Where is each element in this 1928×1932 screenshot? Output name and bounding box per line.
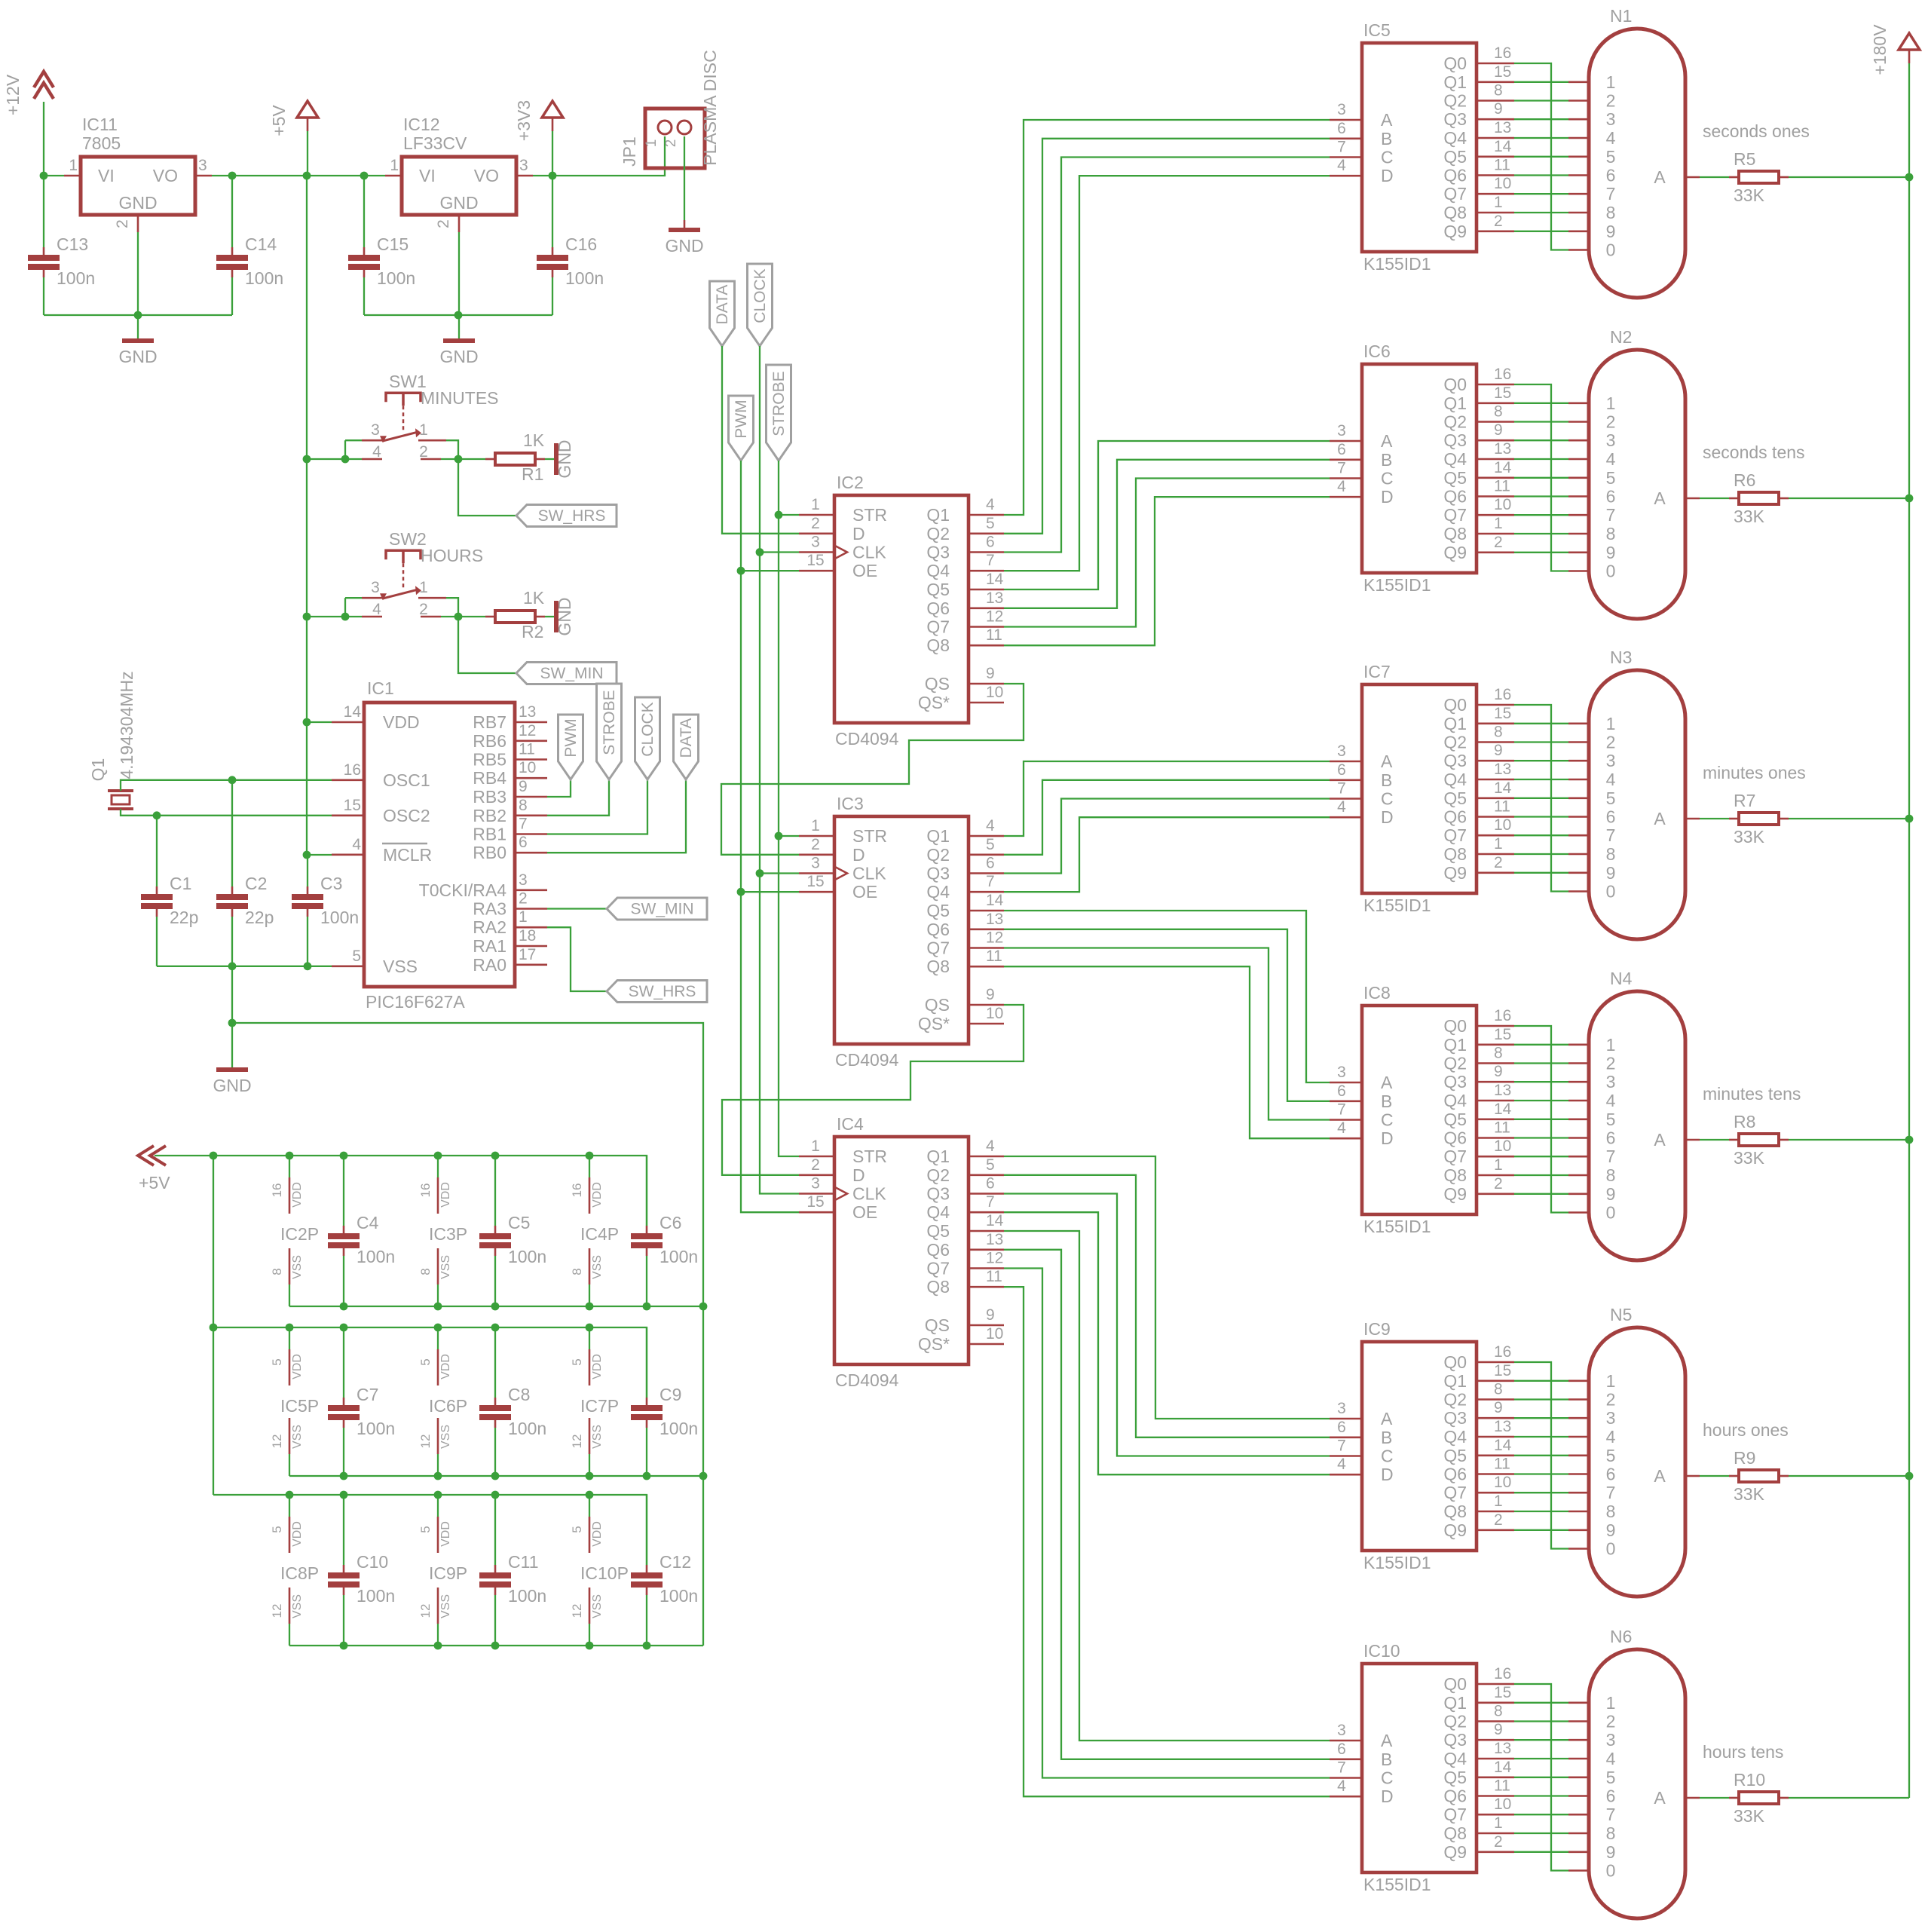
svg-text:14: 14 [1494,1759,1512,1776]
svg-text:C16: C16 [565,234,597,254]
svg-text:11: 11 [986,1268,1002,1285]
wire SW2 to R2 [441,616,485,617]
wire IC4 Q4 to IC9 D [1004,1212,1330,1474]
wire IC7 Q1 to N3 pin 1 [1514,723,1568,724]
wire R10 to +180V rail [1789,1797,1909,1799]
svg-text:CLOCK: CLOCK [639,702,656,756]
svg-text:A: A [1381,1731,1393,1750]
svg-text:VI: VI [419,166,436,185]
svg-text:C: C [1381,789,1394,809]
svg-text:9: 9 [1606,1184,1616,1204]
svg-text:D: D [1381,1787,1394,1806]
wire SW2 throw bracket [446,598,458,617]
svg-text:6: 6 [1337,441,1346,458]
svg-text:A: A [1381,431,1393,451]
svg-text:2: 2 [1494,213,1503,230]
svg-text:C8: C8 [508,1385,530,1404]
net flag SW_MIN [607,898,707,920]
svg-text:STROBE: STROBE [601,690,618,755]
svg-text:5: 5 [270,1526,284,1532]
svg-text:Q1: Q1 [1443,393,1467,413]
svg-text:8: 8 [418,1268,433,1275]
wire C13 bottom [43,277,44,315]
wire R5 to +180V rail [1789,176,1909,178]
svg-text:K155ID1: K155ID1 [1363,1217,1431,1236]
power pins IC7P [570,1349,619,1454]
net flag DATA [710,281,735,346]
svg-text:VDD: VDD [291,1182,304,1208]
svg-text:1: 1 [1606,1371,1616,1391]
svg-text:RB1: RB1 [473,825,506,844]
svg-text:VSS: VSS [291,1255,304,1279]
capacitor C16 [537,234,604,288]
svg-text:HOURS: HOURS [421,546,483,565]
wire C6 bottom [646,1256,647,1306]
ground GND1 [118,341,157,366]
svg-text:1K: 1K [523,588,545,608]
wire IC7P vss [589,1454,590,1476]
wire RA3 to SW_MIN [547,908,607,909]
svg-text:Q5: Q5 [1443,1446,1467,1465]
supply +5V [269,101,318,136]
resistor R10 33K [1729,1792,1789,1804]
wire CLOCK bus [760,346,799,1194]
svg-text:1: 1 [1606,714,1616,733]
svg-text:D: D [852,524,865,543]
svg-text:2: 2 [419,601,428,618]
svg-text:C14: C14 [245,234,277,254]
svg-text:Q1: Q1 [1443,1371,1467,1391]
wire C15 bottom [363,277,365,315]
svg-text:4: 4 [1606,449,1616,469]
svg-text:A: A [1654,488,1666,508]
svg-text:R8: R8 [1734,1112,1755,1131]
svg-text:6: 6 [1606,1128,1616,1148]
svg-text:9: 9 [1606,1520,1616,1540]
svg-text:IC8: IC8 [1363,983,1391,1003]
svg-text:Q9: Q9 [1443,543,1467,562]
wire OSC2 [121,809,332,816]
svg-text:Q7: Q7 [926,938,950,958]
svg-text:12: 12 [270,1604,284,1618]
svg-text:Q2: Q2 [926,524,950,543]
wire N3 anode [1700,818,1729,819]
wire IC3 Q1 to IC7 A [1004,761,1330,836]
wire IC8 Q0 to N4 pin 0 [1514,1026,1568,1213]
wire C5 bottom [494,1256,496,1306]
svg-text:VSS: VSS [439,1255,452,1279]
svg-text:9: 9 [986,986,995,1003]
wire IC10 Q6 to N6 pin 6 [1514,1795,1568,1796]
wire C15 top [363,176,365,247]
svg-text:VDD: VDD [591,1354,604,1379]
net flag SW_HRS [607,981,707,1003]
svg-text:CD4094: CD4094 [835,729,899,749]
svg-text:CLK: CLK [852,1184,886,1204]
power pins IC2P [270,1177,319,1284]
svg-text:Q0: Q0 [1443,1352,1467,1372]
wire IC6 Q0 to N2 pin 0 [1514,384,1568,571]
wire +12V rail [44,175,64,176]
svg-text:minutes ones: minutes ones [1703,763,1806,782]
wire C7 top [343,1327,344,1398]
svg-text:5: 5 [352,948,361,965]
svg-text:Q3: Q3 [1443,751,1467,770]
supply +12V [3,72,54,115]
svg-text:3: 3 [1337,1722,1346,1739]
svg-text:2: 2 [114,219,131,228]
wire C1 top [156,816,158,886]
svg-text:Q8: Q8 [926,957,950,976]
svg-text:+5V: +5V [269,105,289,136]
svg-text:13: 13 [519,703,536,721]
svg-text:VDD: VDD [439,1354,452,1379]
svg-text:Q1: Q1 [1443,714,1467,733]
supply +180V [1870,24,1920,75]
svg-text:2: 2 [1606,733,1616,752]
svg-text:6: 6 [1606,1465,1616,1484]
svg-text:3: 3 [519,871,528,889]
wire IC10P vss [589,1624,590,1646]
svg-text:Q6: Q6 [926,1240,950,1260]
svg-text:1: 1 [1494,515,1503,532]
svg-text:Q9: Q9 [1443,1184,1467,1204]
wire to ground [231,1023,233,1068]
svg-text:+12V: +12V [3,74,23,115]
svg-text:Q8: Q8 [1443,1502,1467,1521]
svg-text:17: 17 [519,946,536,963]
svg-text:15: 15 [1494,1362,1511,1379]
svg-text:hours tens: hours tens [1703,1742,1783,1762]
svg-text:C7: C7 [357,1385,378,1404]
svg-text:4: 4 [1606,1749,1616,1768]
wire IC8 Q1 to N4 pin 1 [1514,1044,1568,1046]
svg-text:VI: VI [98,166,115,185]
svg-text:3: 3 [1606,1408,1616,1428]
svg-text:Q8: Q8 [1443,524,1467,543]
svg-text:4: 4 [372,443,381,461]
capacitor C11 [479,1552,546,1606]
svg-text:8: 8 [1494,1703,1503,1720]
svg-text:7: 7 [519,816,528,833]
wire C10 bottom [343,1595,344,1646]
svg-text:VSS: VSS [439,1594,452,1618]
svg-text:Q6: Q6 [1443,1787,1467,1806]
svg-text:Q7: Q7 [1443,825,1467,845]
wire IC5P vdd [289,1327,290,1349]
svg-text:6: 6 [1337,1419,1346,1436]
svg-text:C2: C2 [245,874,267,893]
svg-text:minutes tens: minutes tens [1703,1084,1801,1104]
svg-text:Q7: Q7 [1443,184,1467,204]
svg-text:seconds ones: seconds ones [1703,121,1810,141]
wire cascade IC2 QS to IC3 D [721,684,1024,855]
svg-text:16: 16 [418,1183,433,1198]
svg-text:Q9: Q9 [1443,222,1467,241]
svg-text:4: 4 [1606,770,1616,789]
wire +5V rail row2 [213,1327,647,1398]
svg-text:8: 8 [1494,1381,1503,1398]
svg-text:13: 13 [986,589,1003,607]
svg-text:16: 16 [1494,1007,1511,1024]
svg-text:14: 14 [344,703,362,721]
svg-text:2: 2 [811,1156,820,1174]
wire R2 to ground [545,616,555,617]
wire C16 bottom [552,277,553,315]
svg-text:8: 8 [1494,1045,1503,1062]
svg-text:4: 4 [1337,1456,1346,1473]
svg-text:12: 12 [986,608,1003,626]
svg-text:4.194304MHz: 4.194304MHz [117,671,136,779]
svg-text:C9: C9 [659,1385,681,1404]
wire IC6 Q3 to N2 pin 3 [1514,439,1568,441]
svg-text:QS: QS [925,674,950,693]
svg-text:A: A [1654,1788,1666,1808]
svg-text:GND: GND [665,236,703,256]
wire IC5 Q5 to N1 pin 5 [1514,156,1568,158]
resistor R1 1K [485,453,545,465]
svg-text:IC10: IC10 [1363,1641,1400,1661]
svg-text:Q2: Q2 [1443,412,1467,432]
svg-text:9: 9 [1494,1063,1503,1080]
svg-text:Q3: Q3 [1443,1730,1467,1750]
svg-text:A: A [1381,752,1393,771]
capacitor C13 [28,234,95,288]
resistor R6 33K [1729,492,1789,504]
svg-text:1: 1 [419,579,428,596]
svg-text:6: 6 [1337,120,1346,137]
svg-text:C10: C10 [357,1552,388,1572]
svg-text:100n: 100n [508,1586,546,1606]
svg-text:2: 2 [1606,1712,1616,1731]
svg-text:14: 14 [1494,1101,1512,1118]
wire IC10 Q1 to N6 pin 1 [1514,1702,1568,1704]
svg-text:3: 3 [1606,109,1616,129]
wire +5V feeder [213,1156,214,1495]
svg-text:B: B [1381,1092,1392,1111]
svg-text:1: 1 [1494,194,1503,211]
svg-text:14: 14 [986,571,1004,588]
svg-text:10: 10 [1494,175,1511,192]
svg-text:1: 1 [1606,393,1616,413]
svg-text:IC12: IC12 [403,115,440,134]
svg-text:7: 7 [1337,1101,1346,1119]
wire VSS rail [157,966,332,967]
svg-text:RB2: RB2 [473,806,506,825]
svg-text:CLOCK: CLOCK [751,268,769,323]
svg-text:4: 4 [1337,1777,1346,1795]
wire cascade IC3 QS to IC4 D [722,1005,1024,1175]
svg-text:4: 4 [372,601,381,618]
ground GND4 [213,1070,251,1095]
svg-text:100n: 100n [357,1586,395,1606]
svg-text:33K: 33K [1734,1806,1765,1826]
svg-text:C15: C15 [377,234,409,254]
svg-text:+180V: +180V [1870,24,1890,75]
svg-text:8: 8 [1606,1165,1616,1185]
svg-text:5: 5 [1606,1446,1616,1465]
svg-text:3: 3 [519,157,528,174]
svg-text:5: 5 [986,515,995,532]
svg-text:Q4: Q4 [1443,449,1467,469]
svg-text:4: 4 [1606,1427,1616,1447]
svg-text:9: 9 [986,665,995,682]
capacitor C15 [348,234,415,288]
svg-text:Q7: Q7 [926,1259,950,1278]
wire IC2 Q4 to IC5 D [1004,176,1330,571]
svg-text:3: 3 [198,157,207,174]
svg-text:1K: 1K [523,430,545,450]
wire IC9 Q4 to N5 pin 4 [1514,1436,1568,1438]
svg-text:VSS: VSS [591,1594,604,1618]
svg-text:1: 1 [1494,1814,1503,1832]
svg-text:5: 5 [1606,147,1616,167]
svg-text:N3: N3 [1610,648,1632,667]
svg-text:33K: 33K [1734,1484,1765,1504]
supply +3V3 [514,100,563,141]
svg-text:3: 3 [1337,742,1346,760]
svg-text:R2: R2 [522,622,543,641]
svg-text:6: 6 [1606,166,1616,185]
wire IC3 Q6 to IC8 B [1004,929,1330,1101]
svg-text:9: 9 [986,1306,995,1324]
wire IC9P vss [437,1624,439,1646]
wire JP1 pin2 gnd [684,136,685,220]
svg-text:13: 13 [1494,1740,1511,1757]
svg-text:2: 2 [1606,91,1616,111]
svg-text:3: 3 [811,534,820,551]
svg-text:Q5: Q5 [1443,1768,1467,1787]
svg-text:7: 7 [1606,184,1616,204]
wire IC7 Q2 to N3 pin 2 [1514,741,1568,742]
svg-text:14: 14 [1494,779,1512,797]
svg-text:LF33CV: LF33CV [403,133,467,153]
svg-text:12: 12 [570,1434,584,1449]
wire +180V rail [1908,63,1910,1798]
svg-text:DATA: DATA [714,285,731,325]
svg-text:9: 9 [1494,1721,1503,1738]
svg-text:RA3: RA3 [473,899,506,919]
wire IC3 Q3 to IC7 C [1004,799,1330,874]
svg-text:C1: C1 [170,874,191,893]
wire IC2 Q8 to IC6 D [1004,497,1330,645]
svg-text:2: 2 [419,443,428,461]
wire C2 bottom [231,917,233,966]
wire C16 top [552,176,553,247]
capacitor C8 [479,1385,546,1438]
svg-text:9: 9 [1494,421,1503,439]
wire IC8 Q5 to N4 pin 5 [1514,1119,1568,1120]
svg-text:5: 5 [570,1526,584,1532]
wire IC7 Q4 to N3 pin 4 [1514,779,1568,780]
wire IC9 Q5 to N5 pin 5 [1514,1455,1568,1456]
capacitor C14 [216,234,283,288]
svg-text:Q2: Q2 [1443,1054,1467,1073]
BCD decoder IC5 K155ID1 [1330,20,1514,274]
svg-text:8: 8 [570,1268,584,1275]
svg-text:IC5: IC5 [1363,20,1391,40]
svg-text:11: 11 [1494,1456,1510,1473]
wire SW1 to SW_HRS flag [458,459,516,516]
voltage regulator IC11 7805 [64,115,212,232]
svg-text:4: 4 [1337,478,1346,495]
wire IC6 Q5 to N2 pin 5 [1514,477,1568,479]
svg-text:C13: C13 [57,234,88,254]
svg-text:Q5: Q5 [926,1221,950,1241]
svg-text:GND: GND [118,193,157,213]
wire R7 to +180V rail [1789,818,1909,819]
svg-text:IC7: IC7 [1363,662,1391,681]
wire IC4P vdd [589,1156,590,1177]
svg-text:seconds tens: seconds tens [1703,442,1805,462]
svg-text:0: 0 [1606,240,1616,260]
svg-text:5: 5 [1606,1768,1616,1787]
svg-text:3: 3 [371,421,380,439]
wire +5V bus to MCLR [307,176,332,855]
wire IC11 pin2 gnd [137,232,139,315]
svg-text:D: D [1381,1465,1394,1484]
svg-text:10: 10 [1494,1474,1511,1491]
wire IC3P vdd [437,1156,439,1177]
wire IC9 Q2 to N5 pin 2 [1514,1398,1568,1400]
svg-text:K155ID1: K155ID1 [1363,1553,1431,1572]
wire IC5 Q2 to N1 pin 2 [1514,100,1568,101]
svg-text:Q7: Q7 [926,617,950,637]
svg-text:Q5: Q5 [926,901,950,920]
svg-text:9: 9 [1494,100,1503,118]
svg-text:9: 9 [1606,222,1616,241]
resistor R7 33K [1729,813,1789,825]
capacitor C5 [479,1213,546,1266]
svg-text:2: 2 [1606,412,1616,432]
wire IC6 Q1 to N2 pin 1 [1514,403,1568,404]
svg-text:10: 10 [1494,816,1511,834]
svg-text:6: 6 [1337,761,1346,779]
power pins IC6P [418,1349,467,1454]
svg-text:6: 6 [1606,487,1616,507]
wire gnd rail right [364,314,552,316]
wire +3V3 stem [552,131,553,176]
svg-text:100n: 100n [357,1247,395,1266]
svg-text:Q6: Q6 [926,920,950,939]
svg-text:Q8: Q8 [926,635,950,655]
svg-text:4: 4 [1337,798,1346,816]
svg-text:4: 4 [1337,1119,1346,1137]
svg-text:2: 2 [663,139,679,148]
wire R6 to +180V rail [1789,498,1909,499]
svg-text:OE: OE [852,561,877,580]
wire C2 top [231,780,233,886]
svg-text:Q6: Q6 [1443,487,1467,507]
wire IC9 Q1 to N5 pin 1 [1514,1380,1568,1382]
svg-text:100n: 100n [659,1586,698,1606]
svg-text:OE: OE [852,882,877,902]
svg-text:Q0: Q0 [1443,1674,1467,1694]
wire IC3 Q5 to IC8 A [1004,911,1330,1082]
svg-text:100n: 100n [377,268,415,288]
svg-text:N2: N2 [1610,327,1632,347]
svg-text:5: 5 [418,1358,433,1365]
svg-text:14: 14 [986,892,1004,909]
svg-text:VDD: VDD [591,1182,604,1208]
wire IC7 Q7 to N3 pin 7 [1514,834,1568,836]
wire IC9 Q0 to N5 pin 0 [1514,1362,1568,1549]
svg-text:3: 3 [1337,1064,1346,1081]
svg-text:JP1: JP1 [620,136,639,167]
wire IC2 Q2 to IC5 B [1004,139,1330,534]
wire IC7P vdd [589,1327,590,1349]
svg-text:CLK: CLK [852,543,886,562]
